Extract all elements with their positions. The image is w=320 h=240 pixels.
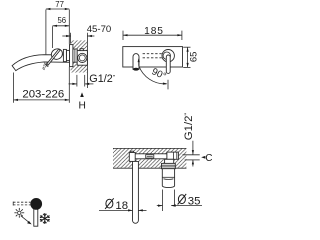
spout outlet capsule (front view) [133,54,139,71]
hidden connection dashed lines (front view) [143,54,163,58]
tiny label o25 (side view lever) [41,61,49,71]
spout (side view) [12,55,70,71]
svg-text:90°: 90° [150,66,168,82]
svg-text:56: 56 [57,16,66,25]
svg-text:C: C [205,153,212,164]
90 degree arc with arrows [138,58,168,90]
spout connection block (bottom view) [129,151,135,161]
handle escutcheon rings (side view) [63,49,69,61]
dimension 65 [183,47,199,67]
valve body stem rings (side view) [73,49,77,62]
sun symbol = hot (icon) [14,208,24,218]
dimension 56 [53,16,70,48]
cartridge housing (side view) [77,49,87,65]
dimension 45-70 [62,24,111,88]
svg-text:G1/2": G1/2" [89,73,115,85]
wall hatching (side view) [71,40,88,72]
svg-text:185: 185 [144,26,164,37]
handle adapter (bottom view) [165,159,174,163]
svg-text:65: 65 [188,52,199,63]
in-wall mounting bar (bottom view) [134,154,167,159]
wall plate (front view) [123,47,183,67]
dimension diameter 35 [157,190,202,212]
handle flange ring (bottom view) [162,163,176,168]
svg-text:203-226: 203-226 [22,89,64,101]
handle (front view) [162,50,174,74]
wall plate (side view, edge-on) [70,45,73,67]
dimension G1/2 (bottom view) [183,112,195,154]
cartridge block (bottom view) [167,152,179,159]
dimension diameter 18 [99,198,147,212]
svg-text:G1/2": G1/2" [183,112,195,140]
rotation arrow (icon) [21,216,32,225]
dimension 203-226 [14,67,70,103]
svg-text:H: H [79,101,86,112]
wall band (bottom view) [113,148,186,168]
handle knob (side view) [49,47,64,62]
handle skirt (bottom view) [162,169,174,188]
spout pipe (bottom view) [133,161,139,223]
svg-text:77: 77 [55,0,64,9]
dimension C [183,153,213,167]
snowflake symbol = cold (icon) [40,213,50,224]
handle stem (icon) [34,208,38,226]
handle lever (side view) [45,49,60,67]
dimension 77 [46,0,69,54]
dimension G1/2 (side view) [69,73,116,87]
cartridge circle (side view) [78,53,87,62]
dashed pull-out lines (icon) [13,202,30,206]
svg-text:45-70: 45-70 [87,24,112,35]
label H with arrow [79,92,86,111]
handle ball (icon) [30,198,42,210]
svg-text:35: 35 [188,195,201,207]
dimension 185 [123,26,182,40]
